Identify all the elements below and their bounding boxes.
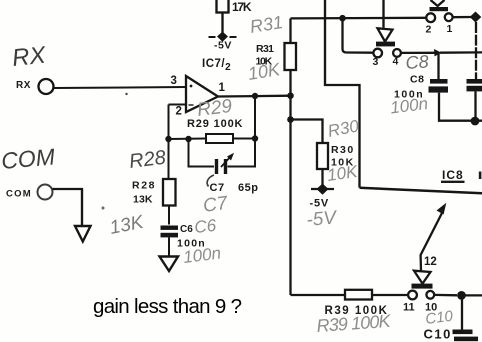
wire RX to op-amp pin 3 <box>54 87 187 88</box>
svg-text:C6: C6 <box>180 224 193 235</box>
node junction on output <box>252 93 258 99</box>
wire switch4 to C8 node <box>401 52 435 54</box>
connector RX <box>39 79 54 94</box>
wire line A (vertical from top) <box>325 0 360 188</box>
wire feedback row <box>169 138 207 141</box>
svg-text:C6: C6 <box>193 216 217 237</box>
wire IC8 bus <box>360 188 482 194</box>
ground COM <box>75 226 91 242</box>
wire switch 10 to C10 node <box>434 294 457 297</box>
svg-text:R30: R30 <box>331 144 354 156</box>
svg-text:2: 2 <box>426 24 432 36</box>
svg-text:3: 3 <box>171 75 177 87</box>
wire bottom run <box>291 294 346 296</box>
svg-text:11: 11 <box>403 302 415 314</box>
resistor 17K <box>217 0 229 33</box>
resistor R28 <box>163 179 176 225</box>
svg-text:C8: C8 <box>405 51 429 73</box>
wire op-amp pin 2 <box>169 104 187 106</box>
connector COM <box>38 185 53 200</box>
node junction inverting/R28 <box>165 136 171 142</box>
wire output to feedback <box>254 96 256 139</box>
wire R31 up to rail <box>289 18 291 43</box>
svg-text:17K: 17K <box>232 0 253 14</box>
svg-text:R31: R31 <box>256 43 275 55</box>
node junction rail drop <box>339 15 346 22</box>
wire down from output node <box>289 96 291 120</box>
wire C7 loop left <box>189 139 215 167</box>
svg-text:13K: 13K <box>133 194 153 206</box>
wire right cap down <box>474 91 476 121</box>
svg-text:R28: R28 <box>128 147 167 173</box>
capacitor (right, 100n) <box>467 79 482 91</box>
node corner diamond <box>470 12 482 23</box>
svg-text:gain less than 9 ?: gain less than 9 ? <box>93 295 242 318</box>
analog switch pins 3/4 <box>373 0 400 57</box>
wire R30 to -5V <box>321 169 323 188</box>
wire output <box>218 95 291 98</box>
node junction C7 left <box>185 136 191 142</box>
svg-text:1: 1 <box>447 23 453 35</box>
node junction bottom right <box>471 117 480 126</box>
svg-text:12: 12 <box>424 256 437 268</box>
svg-text:C7: C7 <box>210 182 225 194</box>
analog switch pins 11/10 with control 12 <box>408 203 446 300</box>
svg-text:C8: C8 <box>410 74 424 86</box>
svg-text:IC8: IC8 <box>442 168 464 182</box>
leader squiggle C7 <box>207 175 214 187</box>
wire to right branch <box>440 51 482 54</box>
wire down to bottom run <box>289 120 291 296</box>
wire node down to C10 <box>461 295 463 329</box>
node junction R30 tap <box>287 116 294 123</box>
svg-text:-5V: -5V <box>306 207 340 231</box>
svg-text:1: 1 <box>219 82 226 94</box>
wire top rail <box>291 17 427 20</box>
capacitor C10 <box>453 330 479 342</box>
svg-text:R29 100K: R29 100K <box>187 118 243 130</box>
wire R29 to right node <box>233 138 255 140</box>
wire C7 loop right <box>228 139 256 167</box>
wire switch1 to corner <box>453 16 471 19</box>
wire drop to switch 3/4 <box>343 18 374 53</box>
capacitor C7 (trimmer) <box>217 153 235 174</box>
analog switch pins 2/1 <box>426 0 452 22</box>
node junction output/R31 <box>287 92 294 99</box>
wire right branch down <box>475 22 477 79</box>
wire inverting node down <box>168 105 170 180</box>
capacitor C6 <box>161 226 179 257</box>
wire node to edge <box>462 294 482 296</box>
resistor R39 <box>345 290 372 300</box>
svg-text:COM: COM <box>6 189 31 200</box>
svg-text:2: 2 <box>176 106 182 118</box>
speck <box>125 93 127 95</box>
capacitor C8 <box>429 79 449 93</box>
wire R31 top rail corner <box>289 70 291 96</box>
svg-text:COM: COM <box>0 143 57 174</box>
svg-text:3: 3 <box>373 56 379 68</box>
resistor R29 <box>206 134 233 143</box>
power -5V (R30) <box>310 184 335 210</box>
node junction C10 <box>457 291 466 300</box>
resistor R30 <box>317 143 328 169</box>
svg-text:65p: 65p <box>238 182 258 194</box>
wire COM to ground <box>53 189 83 226</box>
node junction feedback right <box>252 135 258 141</box>
svg-text:C10: C10 <box>424 308 454 328</box>
svg-text:C10: C10 <box>424 327 452 342</box>
resistor R31 <box>285 43 297 70</box>
svg-text:C7: C7 <box>202 193 230 217</box>
wire R39 to switch 11 <box>372 294 408 296</box>
svg-text:4: 4 <box>393 56 399 68</box>
power -5V (top) <box>209 32 237 52</box>
ground below C6 <box>160 257 179 272</box>
wire R30 tap <box>291 120 323 144</box>
label IC8 <box>441 168 481 182</box>
speck <box>102 207 105 210</box>
node junction C8 <box>434 49 442 56</box>
svg-text:R28: R28 <box>132 180 155 192</box>
svg-text:RX: RX <box>16 80 31 91</box>
wire C8 node down <box>437 53 439 79</box>
svg-text:RX: RX <box>11 42 48 72</box>
wire C8 bottom to bus <box>439 93 482 121</box>
op-amp U IC7/2 <box>186 58 231 112</box>
svg-text:-5V: -5V <box>214 40 232 52</box>
